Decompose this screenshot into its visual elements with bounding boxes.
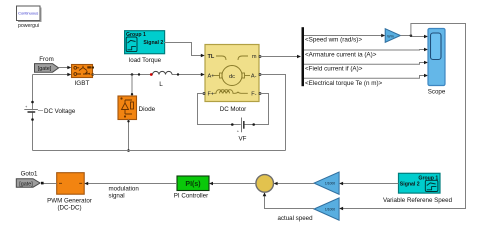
svg-text:Signal 2: Signal 2 bbox=[400, 181, 420, 187]
bus selector bar bbox=[302, 27, 305, 86]
svg-text:PI(s): PI(s) bbox=[185, 181, 200, 188]
wire armature current to scope bbox=[304, 48, 428, 59]
svg-text:[gate]: [gate] bbox=[38, 66, 52, 72]
svg-text:Scope: Scope bbox=[428, 89, 446, 96]
svg-text:<Electrical torque Te (n m)>: <Electrical torque Te (n m)> bbox=[305, 80, 383, 87]
wire lower gain to sum bottom bbox=[263, 192, 314, 208]
svg-text:IGBT: IGBT bbox=[75, 80, 90, 87]
feedback wire to lower gain bbox=[339, 24, 465, 211]
svg-text:Goto1: Goto1 bbox=[21, 170, 38, 177]
svg-text:Wm: Wm bbox=[387, 34, 393, 38]
svg-text:modulation: modulation bbox=[109, 186, 140, 193]
svg-text:F-: F- bbox=[251, 92, 256, 98]
wire left vertical from rail to IGBT collector bbox=[31, 73, 71, 151]
DC Motor block bbox=[203, 45, 261, 113]
wire PI to PWM bbox=[84, 182, 177, 200]
svg-text:actual speed: actual speed bbox=[277, 215, 313, 222]
svg-text:A+: A+ bbox=[208, 74, 215, 80]
Variable Reference Speed block bbox=[383, 173, 453, 204]
svg-text:1/1000: 1/1000 bbox=[325, 208, 335, 212]
svg-text:From: From bbox=[39, 56, 53, 63]
svg-text:signal: signal bbox=[109, 193, 125, 200]
IGBT block bbox=[72, 65, 95, 88]
VF source symbol bbox=[237, 118, 247, 143]
svg-text:PWM Generator: PWM Generator bbox=[47, 197, 92, 204]
svg-text:+: + bbox=[237, 129, 240, 134]
lower gain 1/1000 triangle bbox=[314, 198, 339, 220]
svg-text:dc: dc bbox=[229, 74, 235, 80]
svg-text:VF: VF bbox=[239, 136, 247, 143]
wire gain to scope input 1 bbox=[400, 34, 428, 38]
Diode block bbox=[118, 75, 156, 120]
svg-text:PI Controller: PI Controller bbox=[174, 192, 208, 199]
svg-text:Diode: Diode bbox=[139, 106, 156, 113]
actual speed label bbox=[277, 215, 313, 222]
svg-text:m: m bbox=[252, 54, 257, 60]
svg-text:+: + bbox=[25, 104, 28, 109]
svg-text:powergui: powergui bbox=[18, 23, 39, 29]
svg-text:Continuous: Continuous bbox=[18, 11, 38, 16]
gain Wm triangle bbox=[385, 29, 400, 43]
svg-text:Signal 2: Signal 2 bbox=[143, 40, 163, 46]
svg-text:1/1000: 1/1000 bbox=[325, 182, 335, 186]
svg-text:L: L bbox=[159, 81, 163, 88]
wire electrical torque to scope bbox=[304, 74, 428, 87]
wire motor F+ / VF loop bbox=[198, 94, 269, 126]
wire PWM to Goto1 bbox=[41, 182, 57, 185]
wire motor A- to rail bbox=[259, 75, 286, 151]
PI Controller block bbox=[174, 176, 209, 199]
wire speed wm to gain bbox=[304, 34, 385, 44]
sum junction circle bbox=[256, 175, 274, 193]
svg-text:[gate]: [gate] bbox=[19, 181, 33, 187]
DC Voltage source symbol bbox=[24, 104, 76, 115]
inductor L bbox=[153, 71, 173, 88]
wire sum to PI controller bbox=[209, 182, 256, 186]
wire IGBT to motor A+ with inductor L bbox=[93, 73, 205, 77]
svg-text:TL: TL bbox=[208, 54, 215, 60]
svg-text:A-: A- bbox=[251, 74, 257, 80]
svg-text:F+: F+ bbox=[208, 92, 215, 98]
svg-text:<Field current if (A)>: <Field current if (A)> bbox=[305, 66, 363, 73]
svg-text:DC Voltage: DC Voltage bbox=[44, 108, 76, 115]
svg-text:Variable Referene Speed: Variable Referene Speed bbox=[383, 197, 453, 204]
load Torque signal builder block bbox=[125, 31, 165, 64]
wire ref speed to upper gain bbox=[339, 182, 398, 186]
svg-text:load Torque: load Torque bbox=[129, 57, 162, 64]
wire diode to rail bbox=[127, 120, 130, 152]
upper gain 1/1000 triangle bbox=[314, 172, 339, 194]
svg-text:DC Motor: DC Motor bbox=[220, 106, 246, 113]
bottom rail bbox=[33, 150, 286, 152]
wire motor m to bus bbox=[259, 55, 301, 59]
svg-text:<Speed wm (rad/s)>: <Speed wm (rad/s)> bbox=[305, 37, 362, 44]
svg-text:(DC-DC): (DC-DC) bbox=[57, 204, 81, 211]
wire From tag to IGBT gate bbox=[59, 66, 72, 70]
From tag [gate] bbox=[35, 56, 59, 72]
wire field current to scope bbox=[304, 61, 428, 73]
wire load Torque to motor TL bbox=[164, 43, 205, 58]
powergui block bbox=[17, 6, 42, 29]
Goto1 tag [gate] bbox=[16, 170, 40, 187]
wire upper gain to sum bbox=[274, 182, 314, 186]
PWM Generator block bbox=[47, 173, 92, 212]
svg-text:<Armature current ia (A)>: <Armature current ia (A)> bbox=[305, 51, 377, 58]
Scope block bbox=[428, 29, 446, 96]
